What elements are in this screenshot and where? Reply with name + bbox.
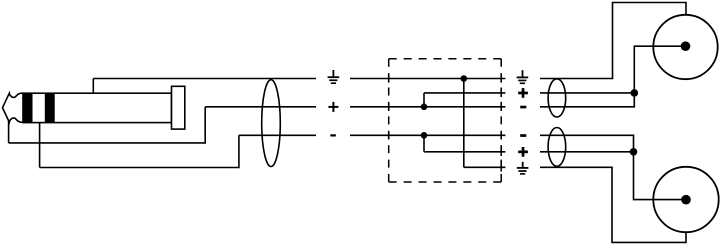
wire: ring signal run to minus node (40, 135, 239, 167)
wire: plus row 3 mid segment (350, 106, 505, 108)
wire: row 5 (bottom output plus) inside box (424, 151, 505, 153)
minus symbol (top output cold) (520, 106, 526, 109)
wire: tip contact down-lead (8, 113, 10, 143)
wire: row 6 (bottom output shield) inside box (464, 166, 506, 168)
wire: minus row 4 left segment (239, 134, 316, 136)
TRS jack plug P1: insulator ring 2 (45, 93, 55, 122)
TRS jack plug P1: tip contact (3, 93, 24, 122)
wire: vertical tie row4 to row5 (423, 135, 425, 152)
junction dot: top output tie (631, 89, 639, 97)
wire: row 2 right segment (540, 92, 634, 94)
minus symbol (bottom output cold) (520, 134, 526, 137)
TRS jack plug P1: insulator ring 1 (23, 93, 33, 122)
RCA connector J1 shell (653, 15, 717, 79)
junction dot: plus tie top (421, 104, 428, 111)
RCA connector J1 center pin (681, 41, 691, 51)
ground symbol G2 (top output shield) (517, 70, 529, 84)
TRS jack plug P1: collar (172, 86, 185, 129)
wire: row 2 (top output plus) inside box (424, 92, 505, 94)
wire: ring contact down-lead (39, 122, 41, 167)
junction dot: bottom output tie (630, 148, 638, 156)
wire: shield row 1 left segment (93, 78, 316, 80)
RCA connector J2 shell (653, 167, 718, 232)
ground symbol G1 (left cable shield) (328, 70, 340, 84)
cable jacket ellipse (left stereo cable) (262, 80, 281, 167)
wire: tip signal run to plus node (9, 107, 206, 143)
wire: row 4 right segment to RCA J2 pin (540, 135, 686, 199)
wire: shield vertical V1 (463, 79, 465, 168)
minus symbol (left cable cold) (330, 134, 336, 136)
TRS jack plug P1: sleeve body outline (23, 93, 172, 122)
plus symbol (bottom output hot) (518, 147, 528, 157)
wire: row 3 right segment to RCA J1 pin (540, 46, 686, 107)
adapter junction box (dashed) (389, 59, 502, 182)
wire: sleeve up-lead (92, 79, 94, 95)
wire: plus row 3 left segment (205, 106, 316, 108)
junction dot: minus tie bottom (421, 132, 428, 139)
wire: shield row 1 mid segment (350, 78, 505, 80)
RCA connector J2 center pin (681, 195, 691, 205)
plus symbol (top output hot) (518, 88, 528, 98)
cable jacket ellipse (top output cable) (548, 79, 566, 117)
wire: vertical tie row2 to row3 (423, 93, 425, 107)
wire: row 6 right segment to RCA J2 shell (540, 167, 686, 242)
wire: row 1 right segment to RCA J1 shell (540, 3, 686, 79)
junction dot: shield split (461, 75, 468, 82)
plus symbol (left cable hot) (328, 102, 338, 112)
wire: row 5 right segment (540, 151, 634, 153)
wire: minus row 4 mid segment (350, 134, 505, 136)
ground symbol G3 (bottom output shield) (517, 162, 529, 175)
cable jacket ellipse (bottom output cable) (548, 127, 566, 166)
